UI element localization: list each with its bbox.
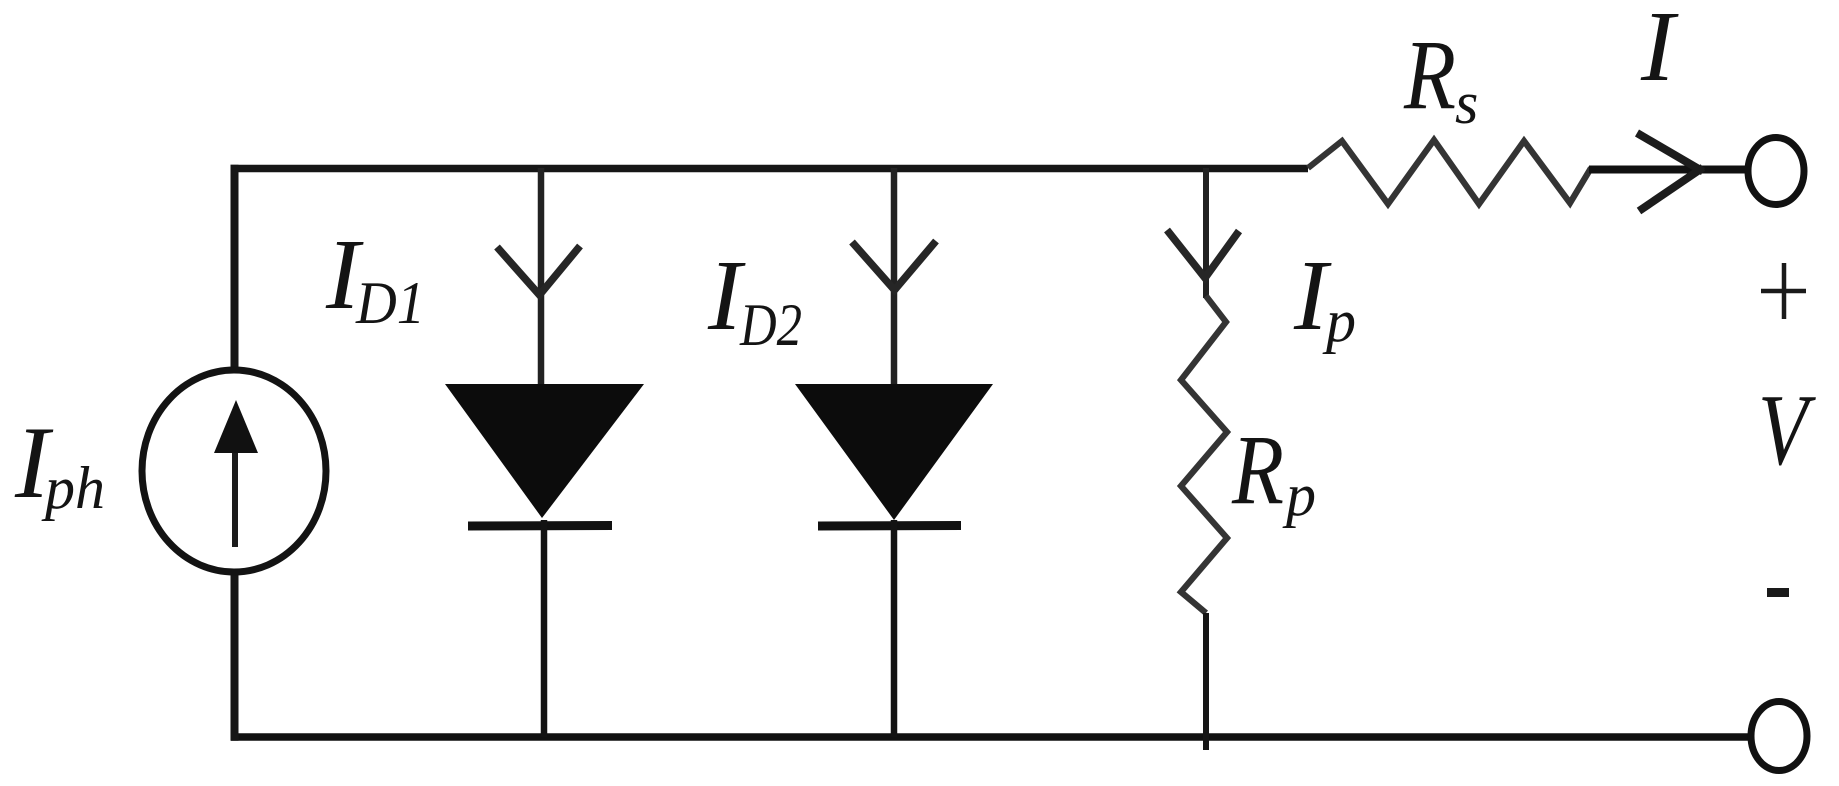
wire Rs to terminal <box>1589 166 1747 174</box>
svg-text:D2: D2 <box>739 292 802 358</box>
current source arrow shaft <box>232 452 238 547</box>
plus sign <box>1761 289 1806 294</box>
diode D2 triangle <box>795 384 993 520</box>
diode D2 cathode bar <box>818 521 961 531</box>
wire left vertical upper (bus corner to source top) <box>231 165 239 371</box>
svg-text:p: p <box>1322 288 1356 354</box>
svg-text:I: I <box>1640 0 1679 102</box>
svg-text:ph: ph <box>41 455 105 521</box>
svg-text:D1: D1 <box>355 270 425 336</box>
terminal top circle <box>1748 138 1804 205</box>
current arrow ID1 chevron <box>497 246 580 295</box>
wire diode D2 branch top <box>891 168 898 386</box>
wire diode D2 branch bottom <box>891 520 898 737</box>
resistor Rp zigzag <box>1181 296 1227 613</box>
wire bottom bus <box>231 733 1748 741</box>
svg-text:s: s <box>1455 70 1478 136</box>
wire Rp branch top <box>1203 168 1209 298</box>
svg-text:p: p <box>1282 462 1316 528</box>
diode D1 cathode bar <box>468 521 612 531</box>
diode D1 triangle <box>445 384 644 518</box>
current arrow Ip chevron <box>1167 230 1239 278</box>
current arrow I upper arm <box>1637 133 1703 172</box>
current source arrow head <box>214 400 258 453</box>
svg-text:R: R <box>1403 19 1456 130</box>
svg-text:V: V <box>1758 374 1817 487</box>
current source Iph circle <box>142 370 326 572</box>
wire top bus <box>231 165 1309 173</box>
svg-text:R: R <box>1231 414 1284 525</box>
current arrow I lower arm <box>1639 168 1703 212</box>
wire left vertical lower (source bottom to bottom bus) <box>231 571 239 741</box>
current arrow ID2 chevron <box>852 241 936 290</box>
resistor Rs zigzag <box>1308 140 1591 204</box>
wire Rp branch bottom <box>1203 613 1209 750</box>
wire diode D1 branch top <box>538 168 545 386</box>
terminal bottom circle <box>1751 702 1807 771</box>
wire diode D1 branch bottom <box>541 520 548 737</box>
minus sign <box>1767 588 1789 597</box>
